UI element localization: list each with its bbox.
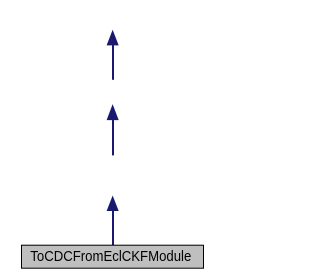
svg-text:ToCDCFromEclCKFModule: ToCDCFromEclCKFModule: [30, 248, 191, 265]
